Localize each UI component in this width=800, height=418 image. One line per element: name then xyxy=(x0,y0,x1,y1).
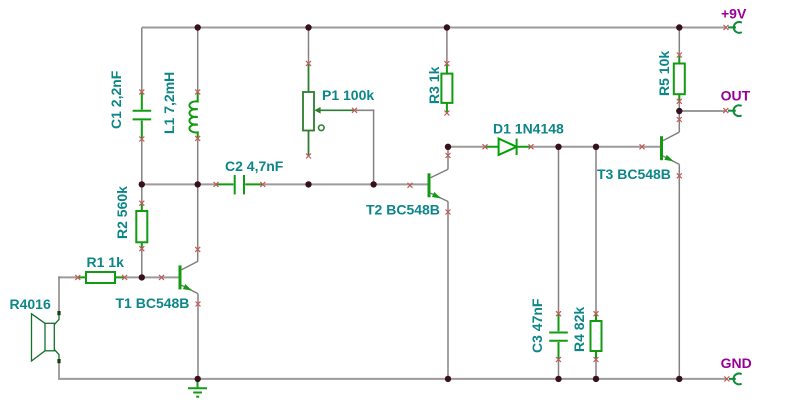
svg-text:T2 BC548B: T2 BC548B xyxy=(366,201,440,217)
pin mark T2 collector xyxy=(446,153,451,158)
wire C3 bottom stub xyxy=(558,360,560,379)
pin mark R2 bottom xyxy=(139,246,144,251)
pin mark terminal GND xyxy=(724,376,729,381)
svg-text:R1 1k: R1 1k xyxy=(87,254,125,270)
junction T1 base node xyxy=(139,274,145,280)
svg-text:L1 7,2mH: L1 7,2mH xyxy=(161,72,177,134)
wire mid net left segment xyxy=(142,183,216,185)
pin mark C1 bottom xyxy=(139,137,144,142)
junction top R5 xyxy=(676,24,682,30)
junction top P1 xyxy=(305,24,311,30)
junction bottom T3 emitter xyxy=(676,376,682,382)
wire R4 top drop xyxy=(595,147,597,314)
junction bottom C3 xyxy=(555,376,561,382)
wire T2 collector diagonal xyxy=(431,169,449,178)
resistor R5 xyxy=(674,55,685,101)
wire R4 bottom stub xyxy=(595,360,597,379)
wire C1 top riser xyxy=(141,28,143,93)
pin mark D1 cathode xyxy=(529,144,534,149)
junction OUT node xyxy=(676,108,682,114)
pin mark R1 right xyxy=(122,275,127,280)
junction T2 collector node xyxy=(445,144,451,150)
terminal GND xyxy=(729,374,742,385)
wire R2 top stub xyxy=(141,184,143,203)
wire diode net right to T3 base xyxy=(531,146,660,148)
inductor L1 xyxy=(189,92,197,138)
junction top L1 xyxy=(195,24,201,30)
wire R2 bottom stub xyxy=(141,249,143,278)
wire C3 top drop xyxy=(558,147,560,314)
terminal OUT xyxy=(728,105,742,116)
pin mark T1 collector xyxy=(195,247,200,252)
pin mark P1 wiper xyxy=(352,108,357,113)
resistor R3 xyxy=(441,64,452,113)
wire T1 collector xyxy=(197,184,199,261)
resistor R4 xyxy=(591,314,602,360)
wire T1 emitter xyxy=(197,294,199,379)
junction top R3 xyxy=(444,24,450,30)
wire P1 wiper run horizontal xyxy=(355,109,374,111)
junction R4 top node xyxy=(593,144,599,150)
wire T3 emitter xyxy=(678,164,680,379)
potentiometer P1 xyxy=(303,63,355,156)
wire OUT run xyxy=(679,110,725,112)
pin mark C2 right xyxy=(260,182,265,187)
pin mark C2 left xyxy=(214,182,219,187)
svg-text:P1 100k: P1 100k xyxy=(322,87,374,103)
wire diode net left xyxy=(448,146,485,148)
pin mark R3 bottom xyxy=(444,111,449,116)
resistor R1 xyxy=(78,272,125,283)
svg-text:R4016: R4016 xyxy=(10,296,51,312)
pin mark R3 top xyxy=(444,61,449,66)
junction bottom R4 xyxy=(593,376,599,382)
pin mark T3 collector xyxy=(677,117,682,122)
wire T1 collector diagonal xyxy=(182,261,199,270)
pin mark T1 base xyxy=(159,275,164,280)
pin mark R2 top xyxy=(139,201,144,206)
pin mark T3 base xyxy=(640,144,645,149)
junction mid net L1 xyxy=(195,181,201,187)
pin mark L1 bottom xyxy=(195,136,200,141)
wire P1 wiper run vertical xyxy=(373,109,375,184)
wire T2 collector xyxy=(447,147,449,169)
pin mark T2 base xyxy=(408,183,413,188)
svg-text:C3 47nF: C3 47nF xyxy=(529,298,545,353)
svg-text:+9V: +9V xyxy=(721,6,747,22)
pin mark C3 bottom xyxy=(556,357,561,362)
wire T3 collector diagonal xyxy=(663,132,679,141)
pin mark P1 top xyxy=(306,61,311,66)
junction C3 top node xyxy=(555,144,561,150)
pin mark R4 top xyxy=(594,311,599,316)
svg-text:R2 560k: R2 560k xyxy=(114,186,130,239)
diode D1 xyxy=(485,139,531,155)
wire R3 top drop xyxy=(446,28,448,64)
wire T2 emitter xyxy=(447,202,449,379)
wire speaker top drop xyxy=(58,276,60,311)
wire R1 left segment xyxy=(58,276,78,278)
junction bottom T2 emitter xyxy=(445,376,451,382)
svg-text:T1 BC548B: T1 BC548B xyxy=(116,295,190,311)
capacitor C2 xyxy=(216,175,263,194)
wire C1 bottom to mid net xyxy=(141,139,143,184)
svg-text:OUT: OUT xyxy=(721,88,751,104)
wire L1 top drop xyxy=(197,28,199,92)
pin mark T2 emitter xyxy=(446,210,451,215)
transistor T1 xyxy=(179,265,193,290)
wire T1 emitter diagonal xyxy=(182,285,199,293)
resistor R2 xyxy=(136,203,147,249)
wire T3 collector xyxy=(678,111,680,132)
pin mark T1 emitter xyxy=(196,302,201,307)
wire P1 top drop xyxy=(308,28,310,64)
pin mark terminal OUT xyxy=(723,108,728,113)
terminal +9V xyxy=(728,22,742,33)
speaker R4016 xyxy=(32,311,61,363)
pin mark L1 top xyxy=(195,89,200,94)
pin mark R5 top xyxy=(677,53,682,58)
svg-text:R5 10k: R5 10k xyxy=(656,51,672,96)
capacitor C3 xyxy=(549,314,568,360)
wire top rail +9V xyxy=(142,27,726,29)
pin mark T3 emitter xyxy=(677,173,682,178)
pin mark R5 bottom xyxy=(677,99,682,104)
transistor T2 xyxy=(428,173,442,198)
pin mark P1 bottom xyxy=(306,154,311,159)
pin mark terminal +9V xyxy=(724,25,729,30)
wire R5 bottom stub xyxy=(678,101,680,111)
transistor T3 xyxy=(660,136,674,161)
pin mark R4 bottom xyxy=(594,357,599,362)
junction mid net P1 xyxy=(305,181,311,187)
wire speaker bottom drop xyxy=(58,363,60,380)
wire T2 emitter diagonal xyxy=(431,193,449,201)
ground xyxy=(188,379,207,397)
junction bottom ground symbol xyxy=(195,376,201,382)
svg-text:R3 1k: R3 1k xyxy=(426,66,442,104)
svg-text:GND: GND xyxy=(721,355,752,371)
pin mark D1 anode xyxy=(483,144,488,149)
wire T3 emitter diagonal xyxy=(663,156,679,164)
junction mid net C1 xyxy=(139,181,145,187)
pin mark C3 top xyxy=(556,311,561,316)
pin mark R1 left xyxy=(75,275,80,280)
wire R5 top drop xyxy=(678,28,680,56)
svg-text:C2 4,7nF: C2 4,7nF xyxy=(225,158,284,174)
svg-text:D1 1N4148: D1 1N4148 xyxy=(493,121,564,137)
svg-text:R4 82k: R4 82k xyxy=(571,307,587,352)
wire bottom rail GND xyxy=(59,378,727,380)
svg-text:C1 2,2nF: C1 2,2nF xyxy=(108,70,124,129)
capacitor C1 xyxy=(133,92,152,139)
junction mid net wiper xyxy=(370,181,376,187)
svg-text:T3 BC548B: T3 BC548B xyxy=(597,166,671,182)
pin mark C1 top xyxy=(139,89,144,94)
wire mid net right segment to T2 base xyxy=(263,183,428,185)
wire L1 bottom to mid net xyxy=(197,138,199,184)
wire base net T1 xyxy=(125,276,179,278)
